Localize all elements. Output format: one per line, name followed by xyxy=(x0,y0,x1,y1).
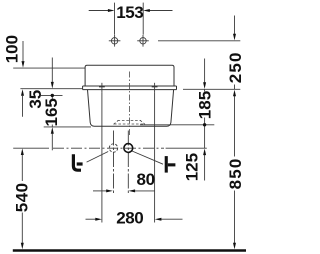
dot 185/125 xyxy=(203,123,206,126)
arrow 250 down xyxy=(233,34,236,41)
basin rim lip xyxy=(83,86,177,90)
dim 165 stem bottom xyxy=(51,125,53,127)
svg-text:80: 80 xyxy=(137,170,155,189)
basin centre line xyxy=(128,72,130,137)
dim 850 stem top xyxy=(234,96,236,157)
basin bowl xyxy=(88,90,174,127)
lip extension line left xyxy=(20,88,82,90)
leader to waste symbol xyxy=(87,152,109,163)
supply symbol xyxy=(165,156,176,173)
node line at dot 35/165 xyxy=(41,94,63,96)
basin body outline xyxy=(83,65,177,126)
arrow 100 down (at top line) xyxy=(22,61,25,68)
drain hole left (hidden) xyxy=(109,144,117,152)
svg-text:125: 125 xyxy=(182,153,201,181)
svg-text:850: 850 xyxy=(226,157,245,189)
drain centre extension line left (540 top) xyxy=(13,147,49,149)
dim 250 stem top xyxy=(234,16,236,35)
arrow 540 up xyxy=(21,148,24,155)
rim tap mark left xyxy=(99,83,105,93)
inner bottom line and 185 extension right xyxy=(140,124,214,126)
hanger centre line right (rim mark to 280 dim) xyxy=(154,93,156,223)
dot 35/165 xyxy=(51,94,54,97)
tap hole centre line extension to right xyxy=(158,40,240,42)
tap hole right xyxy=(137,35,149,47)
dim 100 stem top xyxy=(22,41,24,61)
svg-text:540: 540 xyxy=(13,182,32,212)
lip extension line right xyxy=(183,88,240,90)
drain centre line dash-dot through circles xyxy=(53,147,164,149)
dim 540 stem bottom xyxy=(21,213,23,244)
dim 80 right stem xyxy=(134,190,154,192)
arrow 280 right head xyxy=(155,218,162,221)
arrow 100 up (outside below lip line) xyxy=(21,89,24,96)
arrow 153 left xyxy=(108,9,115,12)
dim 153 right extension line xyxy=(142,3,144,35)
arrow 80 left head xyxy=(106,189,113,192)
arrow 35 down xyxy=(51,82,54,89)
svg-text:100: 100 xyxy=(2,35,21,63)
arrow 540 down xyxy=(21,243,24,250)
dim 250 stem lower middle xyxy=(234,85,236,90)
waste symbol xyxy=(73,154,82,170)
arrow 165 up (outside) xyxy=(51,127,54,134)
floor line xyxy=(13,249,246,251)
dim 153 right stem xyxy=(150,10,173,12)
hanger centre line left (rim mark to 280 dim) xyxy=(101,93,103,223)
dim 153 left extension line xyxy=(114,3,116,35)
drain centre vertical left xyxy=(113,131,115,194)
dim 165 outside arrow stem xyxy=(51,134,53,151)
dim 153 left stem xyxy=(89,10,109,12)
svg-text:185: 185 xyxy=(195,91,214,119)
dim 185 stem top xyxy=(204,59,206,83)
dim 185 stem middle xyxy=(204,89,206,91)
dim 280 right stem xyxy=(161,218,183,220)
hidden drain dashes xyxy=(114,120,146,124)
fixture bottom extension line left xyxy=(44,126,91,128)
dim 280 left stem xyxy=(86,218,97,220)
drain centre extension line right (125 dim) xyxy=(166,147,207,149)
arrow 80 right head xyxy=(129,189,136,192)
arrow 125 up (outside) xyxy=(203,149,206,156)
dim 35 stem xyxy=(51,58,53,83)
dim 185/125 stem bottom xyxy=(204,118,206,149)
svg-text:153: 153 xyxy=(116,3,143,22)
drain centre vertical right xyxy=(127,131,129,194)
drain hole right xyxy=(124,144,133,153)
arrowheads xyxy=(21,9,236,249)
arrow 153 right xyxy=(143,9,150,12)
100-dim top line left xyxy=(13,67,85,69)
leader to supply symbol xyxy=(132,151,163,164)
dim 540 stem top xyxy=(21,155,23,181)
rim tap mark right xyxy=(152,83,158,93)
arrow 850 down xyxy=(233,243,236,250)
dim 125 outside arrow stem xyxy=(204,155,206,181)
dim 100 outside arrow stem bottom xyxy=(22,96,24,117)
tap hole left xyxy=(109,35,121,47)
arrow 185 down xyxy=(203,82,206,89)
svg-text:165: 165 xyxy=(42,98,61,126)
dim 80 left stem xyxy=(93,190,107,192)
dim 165 stem top xyxy=(51,95,53,99)
arrow 280 left head xyxy=(95,218,102,221)
svg-text:250: 250 xyxy=(226,51,245,83)
svg-text:280: 280 xyxy=(116,209,143,228)
dim 850 stem bottom xyxy=(234,191,236,244)
arrow 850 up xyxy=(233,90,236,97)
